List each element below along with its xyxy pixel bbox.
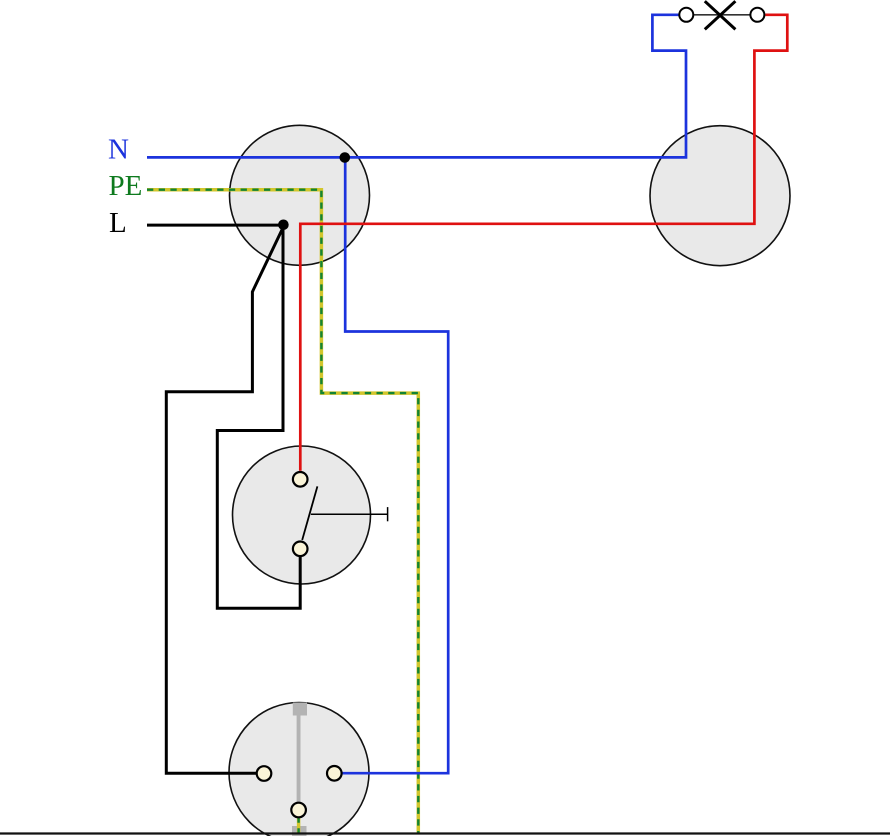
svg-text:L: L: [109, 207, 127, 239]
svg-text:N: N: [108, 134, 129, 166]
svg-text:PE: PE: [109, 170, 143, 202]
